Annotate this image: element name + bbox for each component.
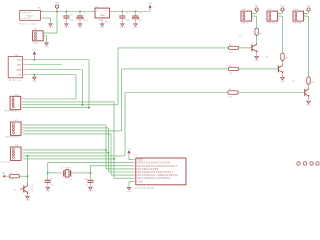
junction JP8 row4 / bus [113,158,115,160]
svg-text:VDD: VDD [306,5,311,7]
transistor T1 [239,36,258,53]
svg-text:VCC: VCC [32,50,37,52]
supply arrow VIN [2,173,6,178]
ground GND C4 [120,24,125,29]
wire R6 to T3 collector [308,84,310,88]
resistor R6 [307,77,310,84]
junction C6 tap [135,11,137,13]
svg-text:220: 220 [229,73,233,75]
svg-text:VDD: VDD [17,60,22,62]
ground GND C2 [88,187,93,192]
power socket U$1 [20,7,44,25]
wire VCC to IC1 VDD [128,154,130,160]
supply VCC rail [148,3,153,8]
ground GND T5 [25,196,30,201]
junction JP6 row4 / riser [88,107,90,109]
wire JP2 pin2 drop [256,16,258,28]
wire JP7 row2 [23,127,108,129]
ground GND T1 [254,57,259,62]
svg-text:C1: C1 [50,178,53,180]
wire JP2 pin2 [252,15,257,17]
wire OSC2 row [91,165,134,167]
wire bus dropper x111 [110,134,112,175]
svg-text:INP/DISPLAY 1: INP/DISPLAY 1 [5,110,20,113]
wire U$2 pin1 row [29,59,89,61]
svg-text:VCC: VCC [127,149,132,151]
wire C2 gnd [90,183,92,187]
junction JP8 row1 / bus [105,149,107,151]
svg-text:GND: GND [98,20,103,22]
wire C4 up [121,12,123,16]
mounting hole H3 [310,162,313,165]
ground GND T3 [306,101,311,106]
svg-text:C6: C6 [139,13,142,15]
ground GND U$2 [32,77,37,82]
svg-text:ICSP prog.: ICSP prog. [1,160,12,163]
wire JP6 row2 [23,101,114,103]
connector JP2 [241,9,254,25]
svg-text:VO: VO [105,11,108,13]
wire C1 gnd [47,183,49,187]
ground GND C5 [78,24,83,29]
wire VDD JP4 drop [308,11,310,13]
connector JP7 [5,120,24,138]
svg-text:BC547: BC547 [30,185,32,194]
wire C6 up [135,12,137,16]
junction JP8 row3 / reset branch [27,155,29,157]
svg-text:GND: GND [17,65,22,67]
ground GND socket [48,24,53,29]
wire node A to crystal [48,172,60,174]
capacitor C3 [63,16,69,19]
svg-text:GND: GND [44,46,49,48]
wire U$2 pin4 row [29,74,76,76]
wire row C left [125,92,228,94]
wire bus dropper x114 [113,102,115,178]
capacitor C1 [45,180,51,183]
wire bus riser x76 [75,75,77,99]
wire VDD JP2 drop [256,11,258,13]
wire JP6 row4 [23,107,89,109]
capacitor C2 [87,180,93,183]
svg-text:IC1: IC1 [134,155,138,157]
connector JP4 [293,9,306,25]
wire VSS pin out [129,180,133,182]
wire C4 down [121,19,123,24]
svg-text:220: 220 [229,52,233,54]
junction JP8 row2 / bus [108,152,110,154]
wire reset riser [27,156,29,176]
svg-text:GND: GND [32,81,37,83]
wire row A right [238,47,251,49]
svg-text:ALMP con: ALMP con [9,79,22,82]
ground GND C6 [133,24,138,29]
wire JP3 pin2 drop [282,16,284,53]
supply VCC IC1 [127,149,132,154]
wire JP8 row3 [23,155,125,157]
svg-text:GND: GND [127,191,132,193]
svg-text:16.0MHz: 16.0MHz [60,168,72,170]
wire VCC riser [149,9,151,12]
wire bus riser x89 [88,60,90,108]
ground GND regulator [100,24,105,29]
transistor T2 [266,57,284,74]
svg-text:GND: GND [133,27,138,29]
svg-text:VDD: VDD [55,2,60,4]
svg-text:GND: GND [306,105,311,107]
connector JP6 [5,94,24,112]
svg-text:7805: 7805 [100,15,106,17]
svg-text:CLK: CLK [17,75,22,77]
wire JP8 row4 [23,158,114,160]
svg-text:Power: Power [33,41,39,44]
ground GND T2 [280,78,285,83]
wire T3 emitter gnd [308,97,310,101]
svg-text:GND: GND [88,191,93,193]
junction C3 tap [66,11,68,13]
junction VDD rail / VDD symbol [56,11,58,13]
wire VIN to R7 [5,175,10,177]
supply VDD top-left [55,2,60,8]
module U$2 [8,55,29,82]
svg-text:C4: C4 [126,13,129,15]
mounting hole H4 [316,162,319,165]
wire VDD to power header [56,12,58,34]
mounting hole H2 [303,162,306,165]
svg-text:100u: 100u [83,20,87,22]
svg-text:C5: C5 [83,13,86,15]
svg-text:C2: C2 [85,185,88,187]
supply VDD JP3 [280,5,285,11]
wire JP3 pin2 [278,15,283,17]
svg-text:VCC: VCC [148,3,153,5]
svg-text:GND: GND [120,27,125,29]
wire node to T5 collector [27,176,29,183]
svg-text:7805T: 7805T [104,21,110,23]
wire bus to GP0 [114,177,133,179]
svg-text:PIC12F 629P: PIC12F 629P [135,188,154,190]
wire bus to GP1 [111,174,133,176]
voltage regulator IC2 7805 [93,7,112,24]
wire T1 emitter gnd [256,52,258,56]
svg-text:GND: GND [45,191,50,193]
wire JP8 row1 [23,149,106,151]
svg-text:GND: GND [100,27,105,29]
wire C5 down [79,19,81,23]
wire JP4 pin2 drop [308,16,310,77]
wire crystal to node B [74,172,91,174]
wire VCC drop U$2 [33,55,35,60]
wire C3 down [65,19,67,24]
svg-text:Power socket: Power socket [20,23,38,26]
resistor R2 [228,67,238,70]
svg-text:47u: 47u [139,20,142,22]
wire riser x118 to row A [117,48,119,105]
junction node A [47,172,49,174]
wire VDD rail [40,11,150,13]
ground GND C1 [45,187,50,192]
svg-text:VDD: VDD [254,5,259,7]
svg-text:T5: T5 [14,189,17,191]
resistor R3 [228,91,238,94]
wire C3 up [65,12,67,16]
wire JP8 row2 [23,152,108,154]
svg-text:INP/DISPLAY 2: INP/DISPLAY 2 [5,135,20,138]
wire JP1 pin2 [43,35,46,37]
wire riser x121.5 to row B [121,69,123,131]
capacitor C6 [132,16,138,19]
svg-text:R4: R4 [259,33,262,35]
svg-text:R5: R5 [285,58,288,60]
crystal Q1 16MHz [60,168,74,181]
wire T2 emitter gnd [282,73,284,77]
wire JP7 row4 [23,133,111,135]
wire U$2 gnd drop [33,75,35,77]
svg-text:T1: T1 [239,36,242,38]
svg-text:VDD: VDD [280,5,285,7]
mounting hole H1 [297,162,300,165]
wire OSC1 row [48,162,133,164]
junction U$2 VDD [34,59,36,61]
svg-text:GND: GND [25,200,30,202]
wire JP7 row1 [23,124,106,126]
wire JP7 row3 [23,130,121,132]
transistor T5 [14,183,32,194]
junction U$2 GND [34,74,36,76]
svg-text:T2: T2 [266,57,269,59]
resistor R1 [228,46,238,49]
wire row B left [122,68,229,70]
wire VDD symbol drop [56,9,58,12]
svg-text:GND: GND [78,27,83,29]
wire riser x125 to row C [124,93,126,156]
wire node A drop [47,163,49,180]
junction reset node [27,175,29,177]
svg-text:15p: 15p [50,185,54,187]
svg-text:10k: 10k [10,179,13,181]
junction C4 tap [121,11,123,13]
wire node B riser [90,166,92,180]
ground GND C3 [64,24,69,29]
svg-text:LED gruen: LED gruen [268,22,279,25]
svg-text:GNDIN: GNDIN [22,18,31,20]
wire U$2 pin3 row [29,69,83,71]
svg-text:U$1: U$1 [37,7,42,9]
svg-text:100n: 100n [70,20,74,22]
svg-text:DATA: DATA [16,69,22,72]
ground GND JP1 [44,43,49,48]
capacitor C4 [119,16,125,19]
svg-text:LED rot: LED rot [242,22,249,25]
wire bus dropper x106 [105,125,107,169]
connector JP1 power header [33,29,46,45]
wire row B right [238,68,278,70]
wire socket gnd [43,17,51,19]
svg-text:GND: GND [64,27,69,29]
svg-text:VSS: VSS [137,179,143,183]
svg-text:LED blau: LED blau [294,23,303,25]
svg-text:Q1: Q1 [69,179,73,181]
wire VDD JP3 drop [282,11,284,13]
wire bus dropper x108.5 [108,128,110,172]
wire VSS drop [128,181,130,187]
connector JP8 [1,145,24,163]
svg-text:220: 220 [229,97,233,99]
wire socket gnd drop [50,18,52,23]
svg-text:T3: T3 [292,80,295,82]
wire JP6 row3 [23,104,118,106]
wire JP3 pin1 [278,12,283,14]
svg-text:PWRIN: PWRIN [22,12,31,14]
svg-text:C3: C3 [70,15,73,17]
wire JP6 row1 [23,98,76,100]
ground GND IC1 [127,188,132,193]
capacitor C5 [77,16,83,19]
wire bus riser x82.5 [82,70,84,105]
wire row C right [238,92,305,94]
svg-text:VIN: VIN [2,173,6,175]
wire JP1 pin2 drop [46,36,48,43]
transistor T3 [292,80,310,97]
svg-text:Power: Power [27,14,33,17]
wire R5 to T2 collector [282,60,284,64]
resistor R7 [9,175,19,178]
supply VDD JP4 [306,5,311,11]
svg-text:100n: 100n [126,20,130,22]
wire U$2 pin2 row [29,64,62,66]
svg-text:GND: GND [280,81,285,83]
wire T5 emitter gnd [27,194,29,195]
wire into VDD pin [129,159,133,161]
microcontroller IC1 PIC12F629 [133,155,186,190]
resistor R5 [281,53,284,60]
svg-text:R6: R6 [311,82,314,84]
wire bus to GP2 [109,171,134,173]
wire bus to GP3 [106,168,133,170]
svg-text:GND: GND [48,27,53,29]
junction JP6 row3 / riser [82,104,84,106]
supply VDD JP2 [254,5,259,11]
wire row A left [118,47,228,49]
wire JP2 pin1 [252,12,257,14]
svg-text:GND: GND [254,60,259,62]
wire R7 to node [19,175,27,177]
wire JP4 pin1 [304,12,309,14]
connector JP3 [267,9,280,25]
junction C5 tap [79,11,81,13]
supply VCC U$2 [32,50,37,55]
junction node B [90,172,92,174]
resistor R4 [255,28,258,35]
wire C6 down [135,19,137,23]
wire C5 up [79,12,81,16]
wire R4 to T1 collector [256,35,258,43]
wire JP4 pin2 [304,15,309,17]
wire JP1 pin1 to VDD [43,32,57,34]
